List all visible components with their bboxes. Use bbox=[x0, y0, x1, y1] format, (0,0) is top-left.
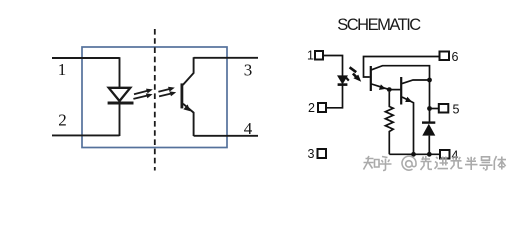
watermark char @ bbox=[402, 156, 416, 170]
pin 1 lead bbox=[52, 57, 120, 59]
bottom rail (emitter/pin4) bbox=[389, 153, 440, 155]
svg-text:4: 4 bbox=[244, 119, 253, 138]
Q1 emitter bbox=[372, 84, 390, 90]
wire: pin1 to LED anode bbox=[323, 56, 343, 76]
light emission bolt arrows bbox=[346, 67, 361, 82]
wire: Q1 emitter node to Q2 base bbox=[389, 89, 400, 91]
svg-text:1: 1 bbox=[307, 49, 314, 63]
svg-text:2: 2 bbox=[308, 101, 315, 115]
wire: LED anode lead bbox=[119, 57, 121, 88]
diode D2 (filled, cathode up) bbox=[422, 124, 435, 136]
LED D1 (filled) bbox=[338, 76, 347, 84]
watermark char 导 bbox=[480, 157, 493, 170]
optical axis dashed line bbox=[154, 29, 156, 171]
Q1 emitter arrowhead bbox=[379, 84, 386, 90]
pin 2 lead bbox=[52, 134, 120, 136]
light arrow 4 (right lower) bbox=[159, 91, 176, 96]
watermark char 知 bbox=[364, 156, 380, 170]
svg-text:SCHEMATIC: SCHEMATIC bbox=[337, 16, 421, 34]
pin 4 terminal square bbox=[440, 150, 450, 159]
svg-text:2: 2 bbox=[58, 111, 67, 130]
wire: top rail (pin 6 to Q1 base) bbox=[364, 57, 440, 78]
svg-text:6: 6 bbox=[452, 50, 459, 64]
pin 3 terminal square bbox=[318, 149, 327, 158]
junction node: pin 5 tap bbox=[427, 106, 432, 111]
watermark char 乎 bbox=[380, 157, 392, 171]
wire: LED cathode lead bbox=[119, 105, 121, 137]
svg-text:5: 5 bbox=[453, 103, 460, 117]
light arrow 1 (left upper) bbox=[134, 89, 153, 95]
diode D2 cathode bar bbox=[422, 121, 435, 123]
pin 2 terminal square bbox=[318, 103, 326, 112]
light arrow 3 (right upper) bbox=[158, 87, 174, 92]
LED cathode bar bbox=[108, 102, 134, 105]
junction node: Q2 emitter on rail bbox=[411, 152, 416, 157]
resistor R1 bbox=[385, 92, 393, 154]
LED D1 cathode bar bbox=[338, 83, 348, 86]
junction node: diode on rail bbox=[427, 152, 432, 157]
watermark char 光 bbox=[451, 156, 463, 169]
pin 3 lead bbox=[194, 57, 258, 59]
wire: collector node down to diode/pin5 bbox=[429, 80, 431, 122]
phototransistor collector bbox=[183, 57, 194, 85]
watermark char 体 bbox=[494, 156, 506, 170]
watermark char 先 bbox=[421, 156, 433, 170]
pin 1 terminal square bbox=[315, 51, 323, 60]
phototransistor base bar bbox=[180, 83, 183, 108]
Q2 emitter bbox=[402, 97, 414, 154]
phototransistor emitter arrowhead bbox=[183, 104, 190, 111]
junction node: Q1 emitter / resistor / Q2 base bbox=[387, 87, 392, 92]
pin 6 terminal square bbox=[440, 52, 450, 61]
junction node: collectors bbox=[427, 78, 432, 83]
watermark char 半 bbox=[465, 157, 478, 170]
svg-text:1: 1 bbox=[58, 60, 67, 79]
LED (package view) triangle bbox=[109, 88, 131, 101]
wire: diode anode to bottom rail bbox=[428, 136, 430, 155]
wire: LED cathode to pin2 bbox=[326, 85, 343, 108]
Q2 collector bbox=[402, 80, 430, 84]
pin 5 terminal square bbox=[439, 104, 449, 113]
watermark char 进 bbox=[435, 157, 449, 169]
pin 4 lead bbox=[194, 135, 258, 137]
Q2 emitter arrowhead bbox=[405, 97, 412, 102]
phototransistor emitter bbox=[183, 104, 194, 136]
wire: node to pin 5 bbox=[430, 108, 439, 110]
Q1 collector bbox=[372, 66, 430, 80]
transistor Q2 base bar bbox=[400, 77, 402, 105]
svg-text:3: 3 bbox=[308, 147, 315, 161]
package outline box (blue) bbox=[82, 47, 227, 148]
transistor Q1 base bar bbox=[370, 66, 372, 91]
svg-text:3: 3 bbox=[244, 61, 253, 80]
watermark 知乎 @先进光半导体 (drawn strokes) bbox=[364, 156, 507, 171]
light arrow 2 (left lower) bbox=[133, 93, 152, 99]
